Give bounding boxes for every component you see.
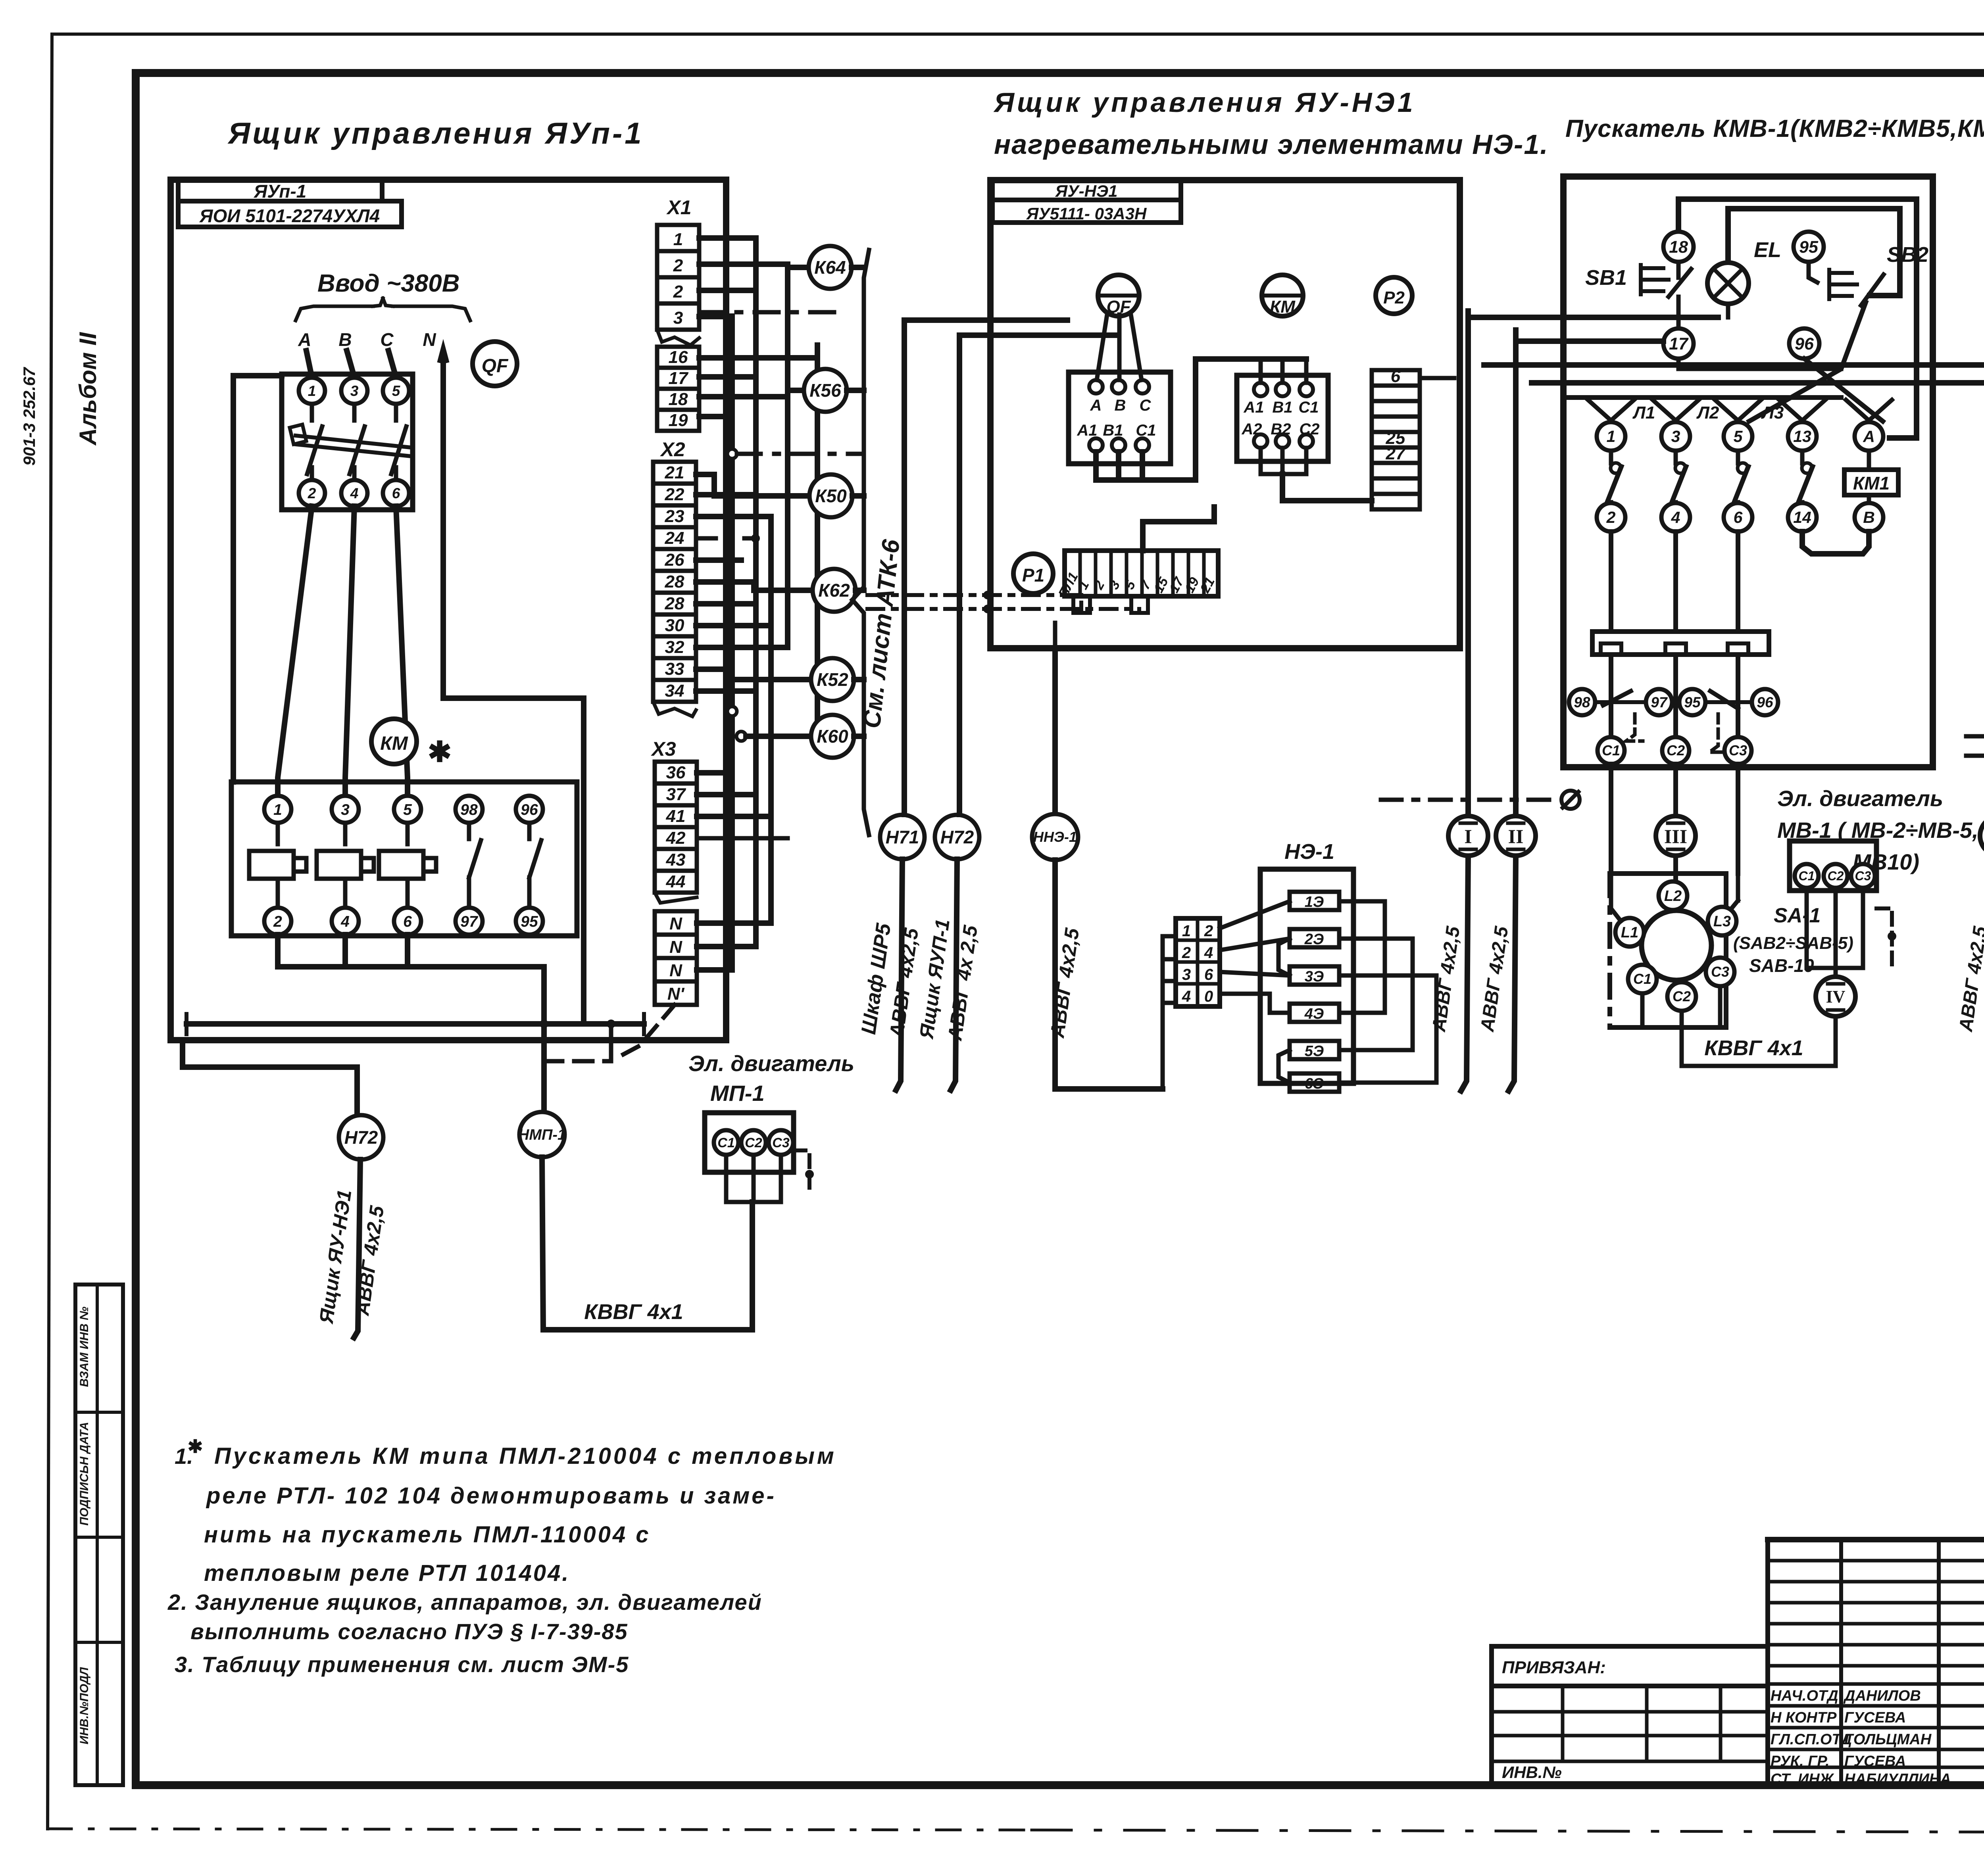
terminal 6 (KMV-1) [1724,503,1752,532]
svg-text:АВВГ 4х2,5: АВВГ 4х2,5 [1046,926,1084,1040]
heater connection table [1176,918,1220,1006]
svg-text:6: 6 [1204,966,1213,983]
svg-text:2: 2 [673,256,683,275]
svg-text:3: 3 [1182,966,1191,983]
svg-text:L3: L3 [1713,913,1731,930]
svg-text:Р1: Р1 [1022,565,1044,586]
svg-text:L2: L2 [1664,888,1682,904]
wire H72 vertical [957,335,962,814]
label vvod 380V [317,270,460,297]
wire X1-16 [699,355,817,361]
svg-text:К60: К60 [817,726,848,747]
svg-text:РУК. ГР.: РУК. ГР. [1771,1753,1830,1770]
wire H71 vertical [902,320,907,814]
wire X1-1 [699,235,756,241]
svg-text:23: 23 [665,507,684,526]
control loop outer (KMV-1) [1678,199,1917,438]
wire X3-37 [697,792,756,797]
svg-text:В1: В1 [1103,422,1123,439]
contactor designation KM (box2) [1262,275,1303,317]
box starter KMV-1 outline [1563,177,1933,767]
heater link 1E-4E [1339,901,1385,1013]
svg-text:16: 16 [669,348,688,367]
svg-text:К52: К52 [817,669,848,690]
svg-text:нить на пускатель ПМЛ-11000: нить на пускатель ПМЛ-110004 с [204,1522,651,1548]
heater link 3E-6E [1339,975,1436,1083]
label el motor MV-1 [1777,786,1978,874]
relay designation P2 [1376,277,1412,314]
svg-text:1: 1 [1182,922,1191,940]
svg-text:96: 96 [521,801,538,818]
svg-text:1: 1 [308,383,316,399]
svg-text:28: 28 [665,594,684,613]
cable label AVVG I (KMV-1) [1428,925,1464,1033]
breaker QF switch unit [282,374,413,510]
phase labels L1 L2 L3 (KMV-1) [1632,403,1784,422]
svg-text:✱: ✱ [188,1436,203,1457]
svg-text:Ящик управления ЯУп-1: Ящик управления ЯУп-1 [227,117,644,150]
svg-text:X3: X3 [650,738,676,760]
svg-text:С2: С2 [1673,988,1691,1004]
svg-text:44: 44 [666,872,686,891]
wire N2 [697,944,756,949]
cable label KVVG (KMV-1) [1704,1036,1803,1060]
note 2 line 2 [190,1619,628,1644]
terminal strip P1 [1055,551,1218,613]
svg-text:QF: QF [482,355,509,376]
svg-text:НАБИУЛЛИНА: НАБИУЛЛИНА [1844,1771,1951,1788]
wire cable II (KMV-1) [1509,330,1516,1091]
svg-text:КВВГ 4х1: КВВГ 4х1 [584,1300,683,1324]
wire N vertical [439,346,584,1024]
note 2 line 1 [167,1590,762,1615]
cable label AVVG II (KMV-1) [1477,925,1513,1033]
svg-text:С2: С2 [1828,869,1844,883]
svg-text:97: 97 [1651,694,1668,710]
svg-text:6: 6 [403,913,412,930]
note 1 line 1 [175,1436,836,1469]
terminal strip X1 [657,196,699,431]
svg-text:5Э: 5Э [1305,1043,1324,1060]
svg-text:7: 7 [1137,578,1154,592]
svg-text:18: 18 [669,390,688,409]
svg-text:1: 1 [1075,578,1092,592]
wire K60 feed [746,734,811,739]
svg-text:К56: К56 [809,380,841,401]
cable wire below H72 [354,1160,360,1338]
wire pole column x4380 (KMV-1) [1736,532,1740,632]
wire X2-28 to K62 [696,582,813,590]
svg-text:18: 18 [1669,238,1688,257]
wire N1 [697,920,771,926]
svg-text:Эл. двигатель: Эл. двигатель [1777,786,1943,811]
connector circle К60 [811,715,854,758]
motor MV-1 loop [1807,888,1896,977]
heater block NE-1 [1260,869,1353,1092]
note 1 line 2 [206,1483,776,1509]
svg-text:СТ. ИНЖ: СТ. ИНЖ [1771,1771,1834,1788]
svg-text:К64: К64 [814,257,846,278]
svg-text:реле РТЛ- 102 104 демонтиро: реле РТЛ- 102 104 демонтировать и заме- [206,1483,776,1509]
cable label AVVG I (KMV-6) [1955,925,1984,1033]
svg-text:13: 13 [1793,427,1811,445]
svg-text:97: 97 [460,913,479,930]
wire QF pole4 down [345,506,354,796]
wire X3-41 [697,814,771,819]
svg-text:I: I [1464,825,1472,847]
wire 17 lower (KMV-1) [1678,359,1841,369]
cable marker II (KMV-1) [1496,816,1536,856]
wire phase C to QF pole 5 [388,351,396,377]
SA-1 contact C2 [1667,982,1696,1011]
wire H71 into box2 [904,317,1067,323]
svg-text:АВВГ 4х2,5: АВВГ 4х2,5 [1477,925,1513,1033]
svg-text:2: 2 [673,282,683,301]
svg-text:КМ1: КМ1 [1853,473,1890,493]
SA-1 contact C3 [1706,958,1734,986]
svg-text:КВВГ 4х1: КВВГ 4х1 [1704,1036,1803,1060]
svg-text:98: 98 [1574,694,1590,710]
svg-text:30: 30 [665,616,684,635]
svg-text:ЯУ-НЭ1: ЯУ-НЭ1 [1055,182,1118,200]
svg-text:4: 4 [340,913,350,930]
bus bar bottom [186,1014,644,1034]
dash link to N terminal [544,1005,675,1061]
box YAUP-1 label plate [178,180,402,227]
svg-text:Н КОНТР: Н КОНТР [1771,1709,1837,1726]
svg-text:ЯУп-1: ЯУп-1 [254,181,307,202]
svg-text:41: 41 [666,806,686,826]
svg-text:Эл. двигатель: Эл. двигатель [688,1051,854,1076]
svg-text:Ящик управления ЯУ-НЭ1: Ящик управления ЯУ-НЭ1 [993,87,1416,118]
svg-text:3. Таблицу применения см. л: 3. Таблицу применения см. лист ЭМ-5 [175,1652,629,1677]
svg-text:28: 28 [665,572,684,591]
box YAU-NE1 outline [990,180,1460,648]
cable marker III [1656,816,1696,856]
svg-text:А: А [1863,427,1875,445]
svg-text:А: А [298,329,311,350]
svg-text:С3: С3 [1729,742,1747,758]
svg-text:21: 21 [665,463,684,482]
asterisk note mark [428,736,452,768]
terminal 96 mid (KMV-1) [1789,328,1819,359]
svg-text:2: 2 [1182,944,1191,962]
svg-text:✱: ✱ [428,736,452,768]
bus line e [815,345,820,738]
terminals C1 C2 C3 (KMV-1) [1598,737,1751,764]
cable run KVVG to motor MP-1 [542,1157,752,1330]
svg-text:Н72: Н72 [344,1127,378,1148]
wire 14-B loop (KMV-1) [1802,532,1869,554]
svg-text:А1: А1 [1077,422,1097,439]
breaker designation QF [473,342,517,386]
terminal box KM (box2) [1237,375,1328,461]
svg-text:4: 4 [350,485,359,501]
svg-text:N: N [669,961,682,980]
SA-1 contact L3 [1708,907,1736,935]
svg-text:95: 95 [1799,238,1819,257]
svg-text:17: 17 [669,369,689,388]
wire QF pole2 down [278,506,312,796]
wire P1 strip to KM [1143,507,1214,551]
pole 13 circle (KMV-1) [1779,400,1825,451]
svg-text:2Э: 2Э [1304,931,1324,948]
contact blade pole 5 (KMV-1) [1733,451,1748,505]
connector circle К56 [804,369,847,412]
svg-text:С1: С1 [1602,742,1620,758]
svg-text:К50: К50 [815,486,847,506]
svg-text:2: 2 [1606,508,1616,526]
connector circle К52 [811,658,854,701]
terminal 2 (KMV-1) [1597,503,1625,532]
wire X2-26 [696,557,741,563]
svg-text:32: 32 [665,637,684,657]
wire X2-30 [696,623,771,628]
wire H72 into box2 [959,332,1115,338]
terminal strip X2 [653,438,696,716]
cable label AVVG (H72) [944,924,982,1043]
svg-text:34: 34 [665,681,684,701]
svg-text:НАЧ.ОТД: НАЧ.ОТД [1771,1688,1838,1704]
bus line b [753,238,759,947]
svg-text:С1: С1 [1799,869,1815,883]
connector circle К62 [813,569,856,612]
contact blade pole 1 (KMV-1) [1606,451,1621,505]
svg-text:37: 37 [666,785,686,804]
box YAUP-1 outline [171,180,726,1040]
svg-text:4: 4 [1182,988,1191,1005]
svg-text:Ящик ЯУ-НЭ1: Ящик ЯУ-НЭ1 [315,1188,356,1325]
motor MP-1 terminal box [705,1113,794,1172]
svg-text:X2: X2 [659,438,685,461]
svg-text:ГОЛЬЦМАН: ГОЛЬЦМАН [1844,1731,1932,1748]
svg-text:901-3 252.67: 901-3 252.67 [20,367,38,466]
svg-text:С2: С2 [745,1135,762,1150]
svg-text:SB1: SB1 [1585,266,1627,290]
svg-text:ГУСЕВА: ГУСЕВА [1844,1753,1906,1770]
svg-text:А2: А2 [1241,421,1262,438]
svg-text:26: 26 [665,550,684,570]
header section 2 line 2 [994,129,1549,160]
svg-text:А1: А1 [1243,399,1264,416]
cable label KVVG 4x1 (MP-1) [584,1300,683,1324]
svg-text:SAB-10: SAB-10 [1749,955,1814,976]
wire X3-42 [697,836,788,841]
svg-text:5: 5 [403,801,412,818]
wire relay to C x4223 (KMV-1) [1673,655,1678,736]
svg-text:5: 5 [1734,427,1743,445]
wire KVVG loop (KMV-1) [1682,1016,1836,1066]
svg-text:21: 21 [1197,575,1218,595]
wire NNE-1 drop [1052,623,1058,814]
wire QF pole6 down [396,506,408,796]
wire KM feed left [233,376,282,782]
wire X1-18 to K56 [699,390,804,397]
indicator circle H71 [880,815,925,859]
wires KM bottom link [1261,448,1372,501]
note 1 line 3 [204,1522,651,1548]
svg-text:Р2: Р2 [1383,288,1405,307]
svg-text:2. Зануление ящиков, аппарато: 2. Зануление ящиков, аппаратов, эл. двиг… [167,1590,762,1615]
wire X3-36 [697,770,732,776]
cable label yashchik YaUP-1 [915,918,954,1041]
dash-dot tie strip gap [699,310,845,315]
contactor designation KM [371,719,417,764]
button SB1 (KMV-1) [1585,262,1691,297]
svg-text:1: 1 [273,801,282,818]
thermal relay (KMV-1) [1592,632,1769,655]
wire below H71 [896,859,902,1090]
svg-text:В: В [1863,508,1875,526]
SA-1 contact L2 [1659,881,1687,910]
svg-text:27: 27 [1386,444,1406,463]
note 3 [175,1652,629,1677]
svg-text:95: 95 [521,913,538,930]
terminal strip (box2 right) [1372,367,1450,509]
wire N3 [697,967,732,973]
dash-dot measuring wires to ATK-6 [867,591,1139,613]
wire X2-22 [696,492,756,497]
svg-text:2: 2 [1091,578,1108,592]
svg-text:В: В [1115,397,1126,414]
svg-text:SA-1: SA-1 [1774,904,1821,927]
svg-text:выполнить согласно ПУЭ § I-7-: выполнить согласно ПУЭ § I-7-39-85 [190,1619,628,1644]
svg-text:С2: С2 [1299,421,1319,438]
motor MP-1 loop wires [726,1150,814,1202]
svg-text:24: 24 [665,528,684,548]
wire X2-33 to K52 [696,669,811,680]
cable marker IV (KMV-1) [1816,977,1855,1016]
svg-text:42: 42 [666,828,686,848]
header section 1 [227,117,644,150]
svg-text:А: А [1090,397,1102,414]
svg-text:С3: С3 [1711,964,1729,980]
svg-text:К62: К62 [818,580,850,601]
bus wire w2 to 17 KMV-1 [1516,338,1663,344]
svg-text:5: 5 [1122,578,1139,592]
svg-text:С3: С3 [1855,869,1871,883]
wire X1-19 [699,414,732,419]
bus line c [768,517,774,923]
title block attachment table [1492,1646,1768,1785]
SA-1 stub wires [1611,874,1738,1027]
svg-text:II: II [1508,825,1524,847]
wires QF circle to terminals [1097,315,1142,380]
SA-1 contact L1 [1615,918,1644,947]
svg-text:В2: В2 [1271,421,1291,438]
svg-text:тепловым реле РТЛ 101404.: тепловым реле РТЛ 101404. [204,1560,570,1586]
label el motor MP-1 [688,1051,854,1106]
svg-text:SB2: SB2 [1887,243,1928,267]
svg-text:ПРИВЯЗАН:: ПРИВЯЗАН: [1502,1658,1606,1677]
dash-dot stub right of strip [1425,376,1454,380]
svg-text:95: 95 [1684,694,1701,710]
svg-text:3: 3 [673,308,683,328]
connector circle К50 [809,474,852,517]
indicator circle NNE-1 [1032,814,1078,860]
cable label yashchik YaU-NE1 [315,1188,356,1325]
wire to H72 of section1 [183,1040,357,1116]
svg-text:ИНВ.№ПОДЛ: ИНВ.№ПОДЛ [78,1667,91,1744]
bus wire w3 to SB1 KMV-6 [1484,297,1984,365]
terminal 14 (KMV-1) [1788,503,1817,532]
svg-text:Л1: Л1 [1632,403,1655,422]
svg-text:НМП-1: НМП-1 [518,1127,566,1143]
svg-text:В1: В1 [1272,399,1292,416]
button SB2 (KMV-1) [1809,243,1928,305]
bus line a [729,316,735,970]
header section 2 line 1 [993,87,1416,118]
svg-text:ЯУ5111- 03А3Н: ЯУ5111- 03А3Н [1026,204,1147,223]
relay designation P1 [1013,554,1053,593]
svg-text:С1: С1 [1136,422,1156,439]
margin text doc no [20,367,38,466]
pole 3 circle (KMV-1) [1653,400,1699,451]
contact blade pole 3 (KMV-1) [1671,451,1686,505]
wire KM bottoms to NMP-1 [278,935,544,967]
cable label AVVG (H71) [885,926,923,1040]
svg-text:С: С [380,329,394,350]
svg-text:ЯОИ 5101-2274УХЛ4: ЯОИ 5101-2274УХЛ4 [199,205,380,226]
terminal В (KMV-1) [1855,503,1883,532]
svg-text:N: N [423,329,436,350]
svg-text:5: 5 [392,383,401,399]
svg-text:ДАНИЛОВ: ДАНИЛОВ [1843,1688,1921,1704]
wire pole column x4223 (KMV-1) [1673,532,1678,632]
SA-1 contact C1 [1628,965,1657,993]
svg-text:3: 3 [1106,578,1123,592]
svg-text:Альбом II: Альбом II [75,332,101,446]
svg-text:3Э: 3Э [1305,968,1324,985]
svg-text:98: 98 [460,801,478,818]
wire X1-2 to K64 [699,264,809,267]
wire X1-3 [699,314,732,319]
heater link 2E-5E [1339,939,1413,1050]
terminal 17 (KMV-1) [1663,328,1694,359]
wire NMP-1 drop [540,967,548,1113]
svg-text:4Э: 4Э [1304,1006,1324,1022]
svg-text:96: 96 [1757,694,1773,710]
lamp EL (KMV-1) [1707,238,1781,317]
wire pole column x4060 (KMV-1) [1609,532,1613,632]
aux contact 95-96 (KMV-1) [1679,689,1778,752]
svg-text:4: 4 [1671,508,1680,526]
K circle right stubs [847,267,864,736]
phase labels A B C N [298,329,436,350]
terminal strip X3 [650,738,697,903]
svg-text:33: 33 [665,659,684,679]
svg-text:Пускатель КМВ-1(КМВ2÷КМВ5,КМВ1: Пускатель КМВ-1(КМВ2÷КМВ5,КМВ10) [1565,115,1984,142]
svg-text:17: 17 [1669,334,1689,353]
note 1 line 4 [204,1560,570,1586]
svg-text:С: С [1140,397,1152,414]
wire relay to C x4060 (KMV-1) [1609,655,1613,736]
wires table to heaters [1220,901,1290,1013]
svg-text:1: 1 [673,230,683,249]
svg-text:III: III [1664,825,1687,847]
svg-text:НЭ-1: НЭ-1 [1284,840,1334,864]
cable end marker (KMV-6) [1966,735,1984,767]
coil КМ1 (KMV-1) [1844,452,1898,503]
contact blade pole 13 (KMV-1) [1798,451,1813,505]
svg-text:6Э: 6Э [1305,1075,1324,1092]
terminal 4 (KMV-1) [1661,503,1690,532]
bus wire w4 to 17 KMV-6 [1532,335,1984,383]
svg-text:ГЛ.СП.ОТД: ГЛ.СП.ОТД [1771,1731,1852,1748]
box YAU-NE1 label plate [992,180,1181,223]
label SA-1 [1733,904,1853,976]
pole А circle (KMV-1) [1846,400,1892,451]
